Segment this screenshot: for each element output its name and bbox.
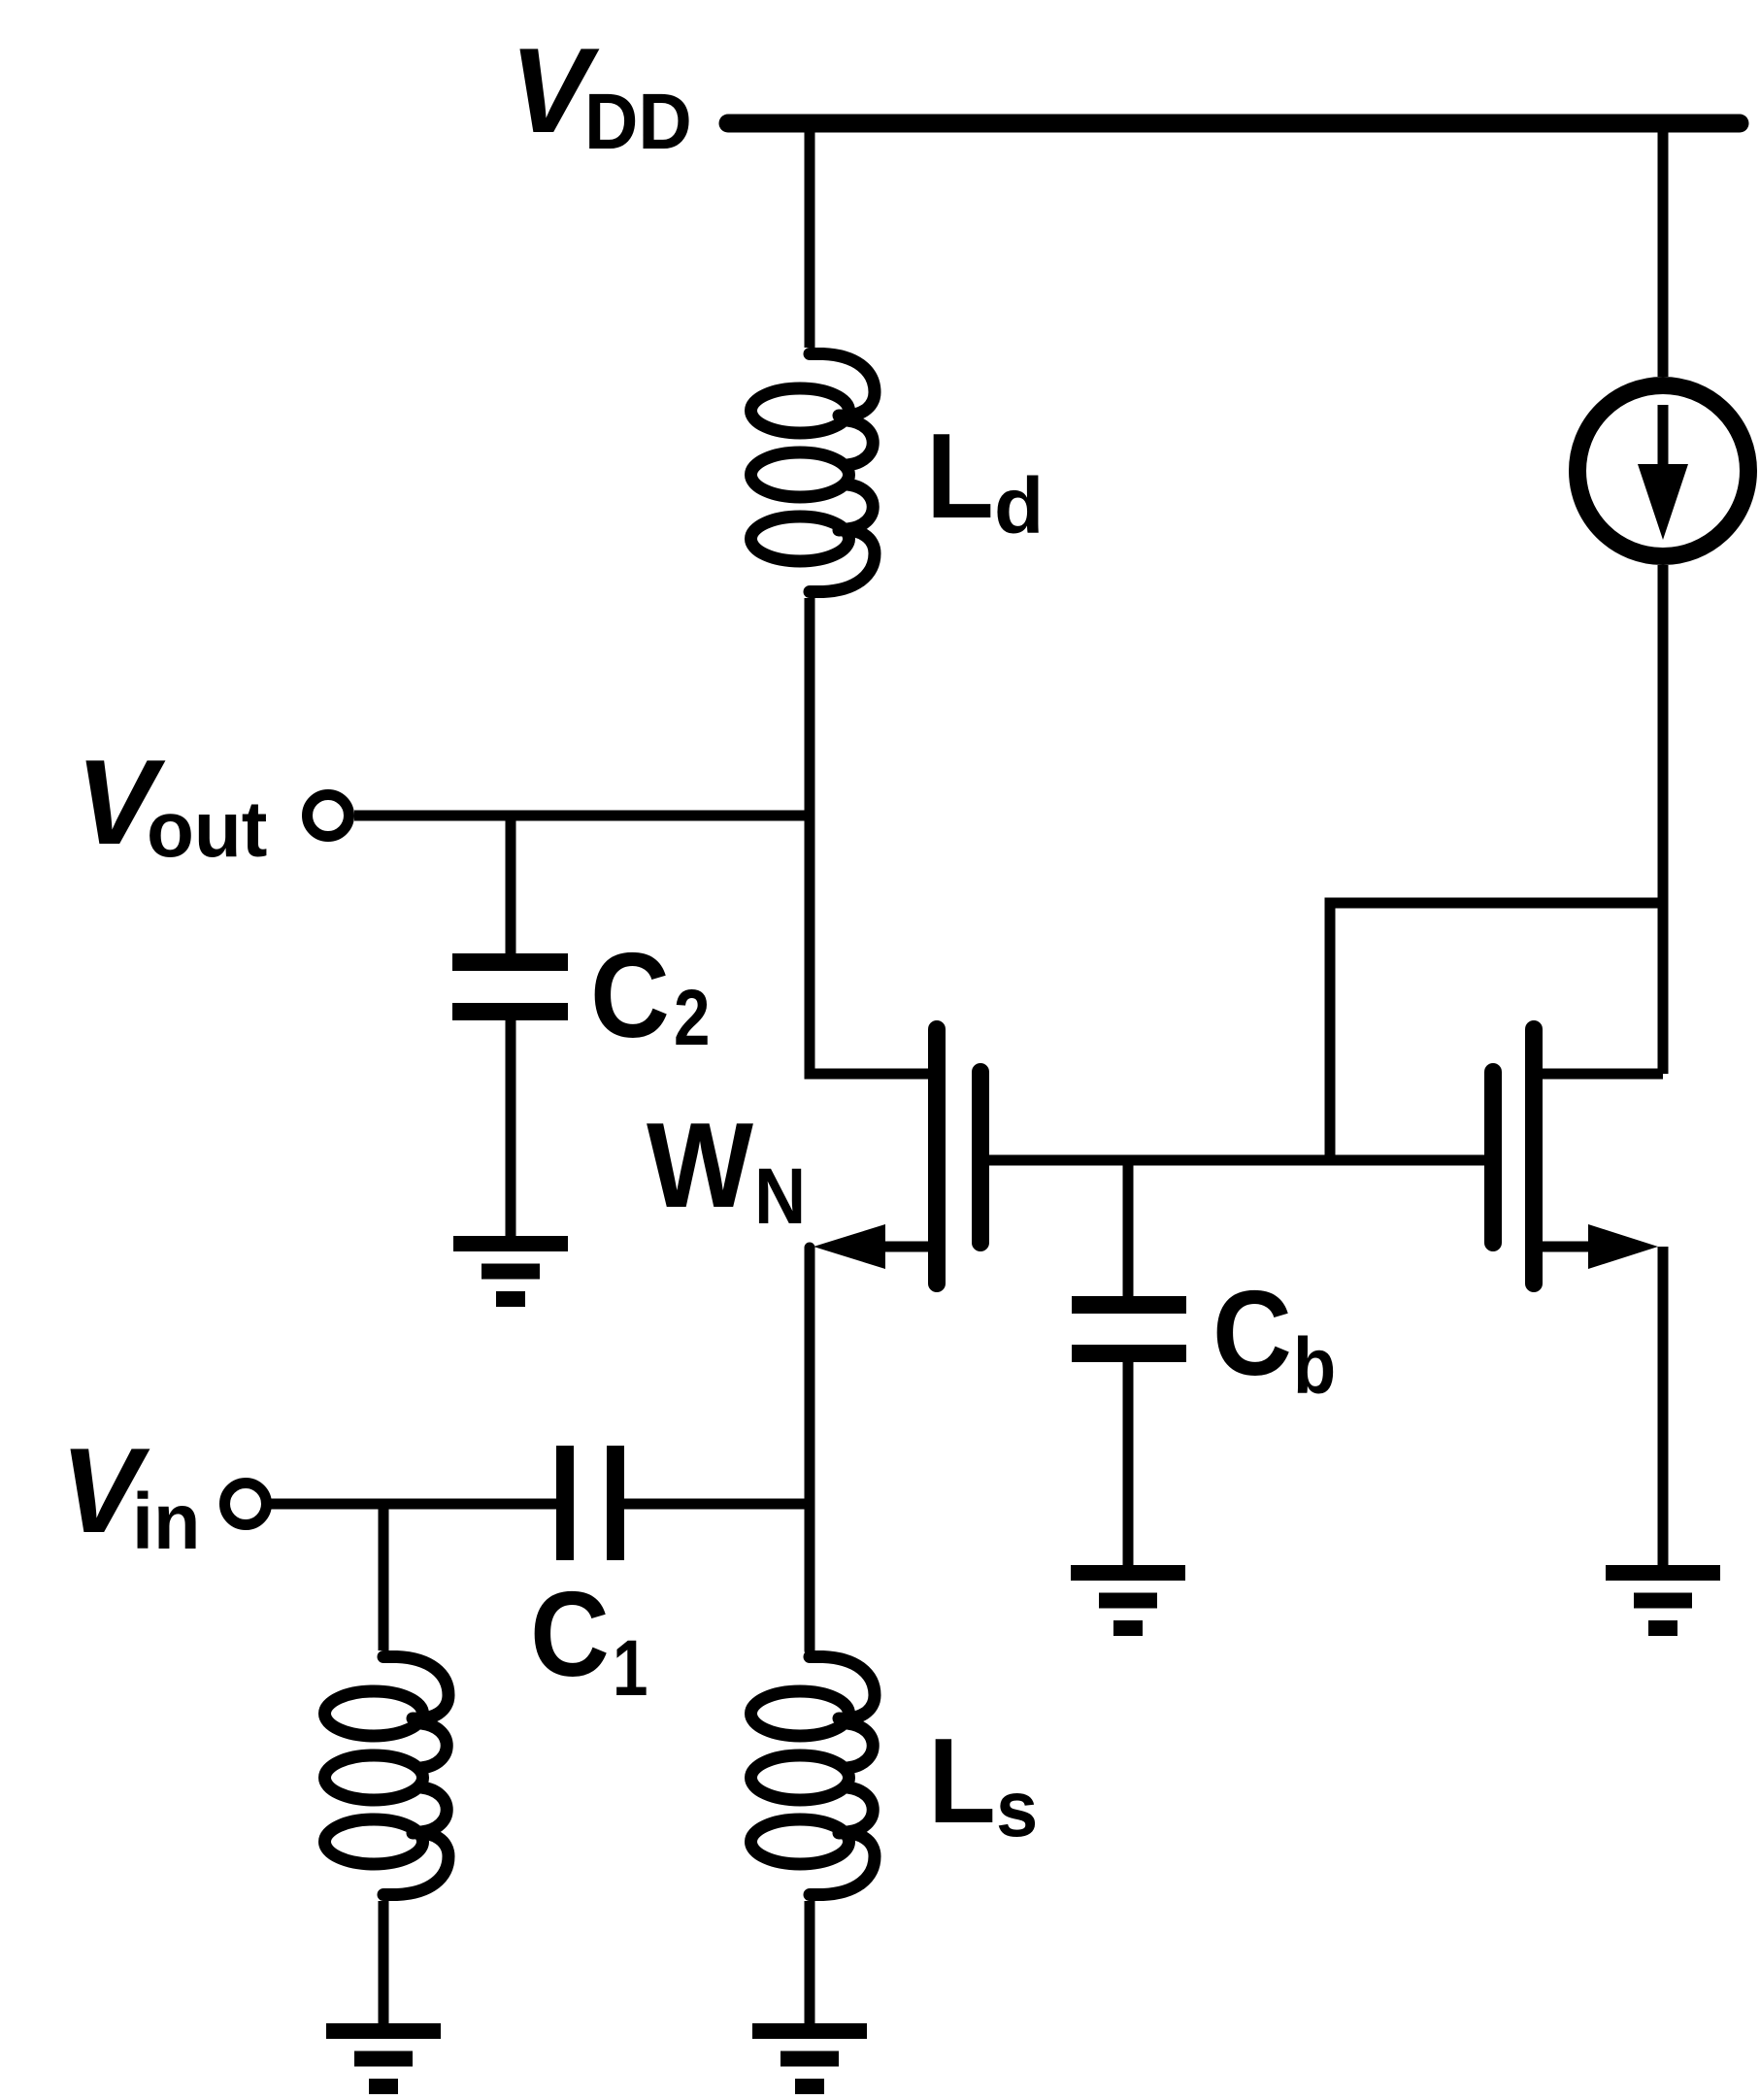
svg-text:b: b	[1293, 1322, 1336, 1411]
inductor Ls	[751, 1657, 876, 1895]
svg-text:1: 1	[613, 1623, 648, 1713]
node Vout label	[76, 736, 267, 875]
svg-text:N: N	[754, 1150, 806, 1241]
ground (Cb)	[1071, 1573, 1185, 1628]
wire Ld to drain of WN (output node)	[810, 598, 932, 1074]
wire VDD to current source	[1658, 123, 1669, 377]
svg-text:C: C	[590, 928, 670, 1063]
value label Ld	[926, 410, 1044, 550]
svg-text:DD: DD	[584, 77, 692, 166]
wire gate line to Cb	[1123, 1160, 1134, 1296]
VDD rail	[728, 115, 1740, 133]
value label Cb	[1212, 1266, 1336, 1411]
svg-text:L: L	[928, 1715, 996, 1849]
inductor Ld	[751, 354, 876, 592]
svg-text:d: d	[994, 461, 1044, 550]
ground (input shunt inductor)	[326, 2031, 441, 2086]
ground (M2 source)	[1606, 1573, 1720, 1628]
value label WN	[647, 1099, 806, 1241]
inductor input shunt	[325, 1657, 449, 1895]
ground (C2)	[453, 1244, 568, 1299]
transistor WN (common-gate NMOS)	[814, 1029, 980, 1283]
ground (Ls)	[752, 2031, 867, 2086]
svg-text:C: C	[530, 1567, 610, 1702]
value label C1	[530, 1567, 648, 1712]
svg-text:L: L	[926, 410, 994, 544]
wire output node to C2	[506, 816, 516, 953]
wire VDD to Ld	[805, 123, 815, 348]
node Vin terminal	[225, 1483, 267, 1525]
capacitor C1	[565, 1446, 615, 1560]
node VDD label	[510, 24, 692, 166]
node Vout terminal	[308, 795, 349, 837]
wire Ls to ground	[805, 1901, 815, 2023]
wire shunt inductor to ground	[379, 1901, 389, 2023]
value label C2	[590, 928, 710, 1063]
capacitor C2	[452, 962, 568, 1012]
wire Vin to C1	[271, 1499, 556, 1510]
svg-text:out: out	[147, 785, 267, 874]
wire gate bias line (WN gate to mirror gate)	[989, 1155, 1484, 1166]
capacitor Cb	[1072, 1305, 1186, 1353]
wire current source to mirror drain	[1658, 565, 1669, 1074]
svg-text:C: C	[1212, 1266, 1292, 1401]
wire C2 to ground	[506, 1020, 516, 1236]
svg-text:in: in	[132, 1478, 201, 1566]
transistor M2 (diode-connected mirror)	[1493, 1029, 1663, 1283]
svg-text:2: 2	[674, 973, 710, 1062]
wire diode connection (gate to drain loop)	[1330, 903, 1663, 1160]
wire WN source to input node	[805, 1248, 815, 1650]
value label Ls	[928, 1715, 1038, 1853]
current source Ibias	[1577, 385, 1748, 556]
wire mirror source to ground	[1658, 1247, 1669, 1565]
wire Cb to ground	[1123, 1362, 1134, 1565]
wire Vout to output node	[354, 811, 810, 821]
node Vin label	[60, 1424, 201, 1567]
svg-text:W: W	[647, 1099, 753, 1233]
wire Vin node to shunt inductor	[379, 1504, 389, 1650]
svg-text:s: s	[996, 1764, 1038, 1852]
wire C1 to source node	[624, 1499, 810, 1510]
